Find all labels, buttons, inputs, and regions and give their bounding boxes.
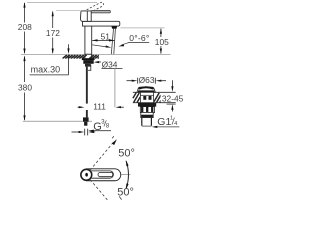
mounting washer [82, 58, 95, 60]
collar [85, 64, 91, 67]
dimension 172 [52, 12, 54, 54]
deck surface line [21, 53, 171, 55]
waste collar box [141, 112, 153, 117]
svg-text:105: 105 [155, 37, 169, 47]
extension line (waste axis) [114, 69, 116, 108]
dimension 380 [24, 57, 26, 121]
svg-text:208: 208 [18, 22, 32, 32]
deck hatch left of waste [133, 93, 140, 103]
body circle (top view) [81, 169, 92, 180]
label G 3/8 with leader [92, 130, 111, 132]
center dot [85, 173, 88, 177]
svg-text:0°-6°: 0°-6° [129, 33, 149, 43]
deck band (section) [133, 91, 176, 93]
leader arrow left to stream [92, 45, 108, 47]
svg-text:50°: 50° [118, 148, 135, 160]
dimension 32-45 [171, 80, 173, 87]
dimension 111 [78, 106, 81, 108]
aerator outlet [111, 26, 117, 28]
lever inner lines [88, 171, 113, 178]
G3/8 tail [84, 122, 87, 126]
G3/8 hex fitting [83, 117, 89, 121]
supply hose upper [86, 67, 88, 104]
waste flange base band [138, 90, 154, 92]
svg-text:max.30: max.30 [31, 65, 61, 75]
dashed ray lower (-50°) [90, 180, 107, 200]
waste big nut [138, 103, 156, 107]
deck hatch right of waste [154, 93, 161, 103]
waste flange dome [137, 87, 156, 92]
svg-text:111: 111 [93, 101, 106, 111]
svg-text:380: 380 [18, 82, 32, 92]
centerline to arc [121, 174, 130, 176]
lever raised (dashed) [83, 2, 103, 14]
faucet spout flange [83, 21, 120, 26]
svg-text:50°: 50° [117, 186, 134, 198]
mounting nut [83, 60, 93, 64]
label G1 1/4 [142, 125, 152, 127]
waste body through deck [140, 92, 153, 102]
handle base [80, 11, 91, 21]
extension line 172 (lever top) [56, 10, 81, 12]
bottom reference line (hose end) [23, 120, 92, 122]
faucet body [85, 26, 92, 54]
swivel arc with arrows [126, 161, 128, 189]
dimension 105 [160, 29, 162, 54]
dimension 208 [24, 3, 26, 53]
hose clip [88, 65, 91, 70]
supply hose lower [86, 110, 88, 117]
lever outline (stadium) [86, 169, 120, 181]
dimension Ø63 [127, 80, 135, 82]
small hose diameter gauge [72, 131, 81, 133]
leader arrow right to stream [122, 43, 130, 45]
waste tailpipe [142, 118, 152, 126]
svg-text:Ø34: Ø34 [102, 59, 118, 69]
svg-text:172: 172 [46, 28, 60, 38]
water stream lines [111, 29, 113, 55]
dashed ray upper (+50°) [90, 143, 113, 170]
extension line top (raised lever height) [27, 2, 97, 4]
svg-text:1: 1 [170, 116, 173, 122]
svg-text:51: 51 [101, 31, 111, 41]
waste ribbed nut [140, 107, 154, 113]
body edges through deck [84, 54, 86, 58]
extension line outlet height [120, 27, 164, 29]
svg-text:32-45: 32-45 [162, 94, 184, 104]
lever inner capsule [98, 173, 113, 177]
svg-text:Ø63: Ø63 [139, 75, 155, 85]
lever (rest position) [91, 10, 110, 13]
faucet deck hatch [62, 55, 100, 59]
